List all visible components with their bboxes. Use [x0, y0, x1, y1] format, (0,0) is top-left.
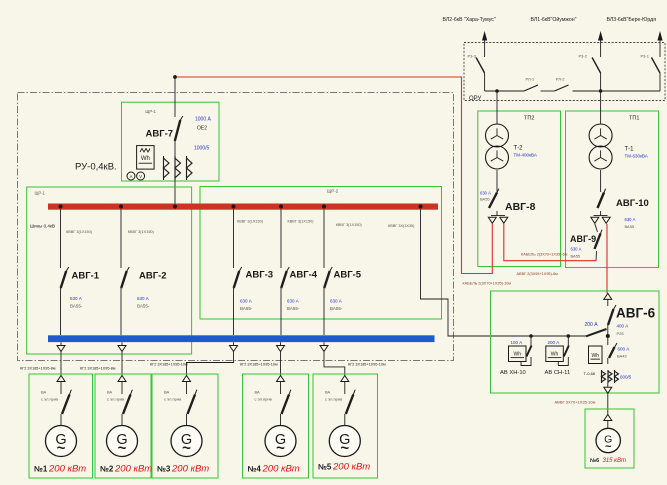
wire ОРУ bus segment 2 — [541, 90, 555, 92]
node generator box №5 — [313, 374, 378, 478]
node arrow ВЛ2 — [482, 31, 487, 41]
svg-text:1000 А: 1000 А — [195, 117, 212, 123]
svg-text:ОРУ: ОРУ — [469, 96, 482, 102]
svg-text:ВА55-: ВА55- — [330, 306, 343, 311]
wire line ВЛ1 lower — [600, 73, 602, 91]
svg-text:АВГ-1: АВГ-1 — [72, 271, 100, 282]
svg-text:АВВГ 3Х70+1Х35-10м: АВВГ 3Х70+1Х35-10м — [555, 400, 596, 405]
svg-text:ВА: ВА — [255, 390, 261, 395]
node connector right АВГ-10 — [602, 217, 610, 223]
wire connector to АВГ-9 — [595, 224, 598, 232]
generator G5 — [329, 426, 360, 458]
svg-text:ВА55: ВА55 — [480, 197, 490, 202]
disconnector on ВЛ3 — [652, 58, 661, 74]
breaker АВГ-2 — [121, 267, 129, 288]
node junction ТП1 tap — [599, 89, 603, 93]
wire АВГ-6 mid — [607, 325, 609, 345]
generator G6 — [596, 428, 620, 453]
node connector below blue bus №2 — [118, 346, 126, 352]
wire №2 upper — [121, 382, 123, 395]
svg-text:ВА: ВА — [107, 390, 113, 395]
svg-text:Р3-3: Р3-3 — [468, 54, 477, 59]
node junction АВ СН-11 tap — [567, 334, 571, 338]
svg-text:ВЛ2-6кВ "Хара-Тумус": ВЛ2-6кВ "Хара-Тумус" — [443, 17, 496, 23]
wire ОРУ to Т-2 — [496, 91, 498, 125]
svg-text:РЛ-1: РЛ-1 — [526, 77, 535, 82]
svg-text:~: ~ — [276, 440, 285, 457]
svg-text:РУ-0,4кВ.: РУ-0,4кВ. — [75, 162, 117, 173]
meter Wh АВГ-6 — [589, 346, 603, 364]
generator G3 — [171, 426, 202, 458]
wire red bus to АВГ-5 — [323, 210, 325, 269]
svg-text:АВ ХН-10: АВ ХН-10 — [500, 370, 526, 376]
svg-text:ЩР-1: ЩР-1 — [35, 191, 46, 196]
wire АВГ-7 upper — [174, 77, 176, 117]
meter Wh АВГ-7 squiggle — [140, 149, 150, 153]
svg-text:ВА55-: ВА55- — [287, 306, 300, 311]
svg-text:КВВГ 3(1Х150): КВВГ 3(1Х150) — [66, 230, 93, 234]
breaker generator №1 — [62, 390, 71, 414]
svg-text:200 кВт: 200 кВт — [48, 464, 86, 475]
svg-text:КГ2 3Х185+1Х95-10м: КГ2 3Х185+1Х95-10м — [348, 363, 386, 367]
wire line ВЛ3 lower — [659, 73, 661, 91]
node connector АВГ-6 output — [604, 387, 612, 393]
node junction АВГ-6 tie — [606, 334, 610, 338]
node connector left АВГ-8 — [488, 217, 496, 223]
node junction red bus АВГ-7 — [173, 204, 177, 208]
wire №3 upper — [186, 382, 188, 395]
generator G2 — [107, 426, 138, 458]
wire №4 upper — [280, 382, 282, 395]
svg-text:АВГ-6: АВГ-6 — [616, 306, 656, 321]
svg-text:с эл.прив: с эл.прив — [164, 397, 181, 402]
wire blue bus stub №1 — [60, 342, 62, 345]
node generator box №3 — [152, 374, 218, 478]
svg-text:КГ2 3Х185+1Х95-10м: КГ2 3Х185+1Х95-10м — [150, 363, 188, 367]
svg-text:ТМ-400кВА: ТМ-400кВА — [514, 153, 537, 158]
wire №3 to G — [186, 414, 188, 426]
svg-text:~: ~ — [340, 440, 349, 457]
node junction blue bus АВГ-3 — [231, 337, 235, 341]
wire №4 to G — [280, 414, 282, 426]
svg-text:~: ~ — [182, 440, 191, 457]
wire to АВ ХН-10 — [530, 336, 532, 346]
svg-text:100 А: 100 А — [511, 340, 523, 345]
wire АВГ-7 lower to bus — [174, 141, 176, 204]
bus blue generator bus — [48, 335, 435, 342]
node junction blue bus АВГ-2 — [119, 337, 123, 341]
node generator box №4 — [243, 374, 309, 478]
svg-text:ВА: ВА — [164, 390, 170, 395]
svg-text:ВА55: ВА55 — [625, 224, 635, 229]
node connector №3 box input — [183, 376, 191, 382]
svg-text:ЩР-1: ЩР-1 — [145, 109, 156, 114]
svg-text:КВВГ 3Х(1Х35): КВВГ 3Х(1Х35) — [388, 224, 415, 228]
svg-text:№5: №5 — [318, 463, 332, 472]
svg-text:630 А: 630 А — [287, 299, 299, 304]
meter voltmeter V — [137, 172, 145, 180]
wire АВГ-2 to blue bus — [120, 288, 122, 335]
svg-text:с эл.прив: с эл.прив — [255, 397, 272, 402]
svg-text:КГ2 3Х185+1Х95-8м: КГ2 3Х185+1Х95-8м — [20, 367, 56, 371]
node junction blue bus АВГ-4 — [279, 337, 283, 341]
breaker generator №2 — [123, 390, 132, 414]
wire to АВ СН-11 — [567, 336, 569, 346]
breaker generator №3 — [188, 390, 197, 414]
node АВГ-7 section enclosure — [122, 102, 220, 181]
wire АВГ-1 to blue bus — [60, 288, 62, 335]
node ОРУ dotted enclosure — [464, 43, 665, 101]
breaker АВГ-7 — [175, 116, 183, 141]
node generator 6 enclosure — [585, 409, 634, 468]
svg-text:№4: №4 — [248, 465, 262, 474]
wire АВ СН-11 hook — [558, 357, 568, 366]
node connector below blue bus №4 — [277, 346, 285, 352]
node connector АВГ-6 input — [604, 293, 612, 299]
svg-text:ВА55-: ВА55- — [70, 304, 83, 309]
node junction red bus АВГ-3 — [231, 204, 235, 208]
wire drop jog №3 — [187, 352, 234, 376]
svg-text:Р3-1: Р3-1 — [641, 54, 650, 59]
wire АВ ХН-10 hook — [521, 357, 531, 366]
svg-text:№3: №3 — [157, 465, 171, 474]
svg-text:400 А: 400 А — [617, 324, 629, 329]
wire blue bus stub №3 — [233, 342, 235, 345]
svg-text:АВГ-4: АВГ-4 — [290, 270, 318, 281]
wire red tie АВГ-7 top to АВГ-8 left connector — [175, 77, 492, 274]
svg-text:РЛ-2: РЛ-2 — [556, 77, 565, 82]
wire АВГ-4 to blue bus — [280, 288, 282, 335]
wire to G6 — [607, 421, 609, 429]
breaker АВ ХН-10 blade — [527, 346, 532, 357]
node connector №5 box input — [341, 376, 349, 382]
breaker АВГ-3 — [234, 267, 242, 288]
breaker АВГ-10 — [598, 189, 606, 208]
node connector №4 box input — [277, 376, 285, 382]
svg-text:630 А: 630 А — [571, 247, 582, 252]
svg-text:Р3-2: Р3-2 — [579, 54, 588, 59]
svg-text:630 А: 630 А — [70, 296, 82, 301]
svg-text:КВВГ 3(1Х150): КВВГ 3(1Х150) — [128, 230, 155, 234]
svg-text:630 А: 630 А — [240, 299, 252, 304]
wire ОРУ bus segment 1 — [485, 90, 524, 92]
svg-text:АВГ-5: АВГ-5 — [334, 270, 362, 281]
wire №1 upper — [60, 382, 62, 395]
svg-text:АВГ-7: АВГ-7 — [146, 129, 174, 140]
node generator box №1 — [29, 374, 93, 478]
svg-text:ТМ-630кВА: ТМ-630кВА — [625, 154, 648, 159]
svg-text:1000/5: 1000/5 — [194, 146, 210, 152]
svg-text:ВА55-: ВА55- — [137, 304, 150, 309]
svg-text:~: ~ — [118, 440, 127, 457]
meter Wh АВ СН-11 — [546, 346, 564, 362]
svg-text:КАБЕЛЬ 2(3Х70+1Х35)-10м: КАБЕЛЬ 2(3Х70+1Х35)-10м — [463, 282, 512, 286]
wire АВГ-6 input — [607, 299, 609, 306]
svg-text:№1: №1 — [34, 465, 48, 474]
svg-text:Т-2: Т-2 — [514, 146, 524, 152]
wire drop №4 — [280, 352, 282, 376]
wire red bus to АВГ-3 — [233, 210, 235, 269]
meter Wh АВГ-7 — [137, 146, 155, 170]
wire line ВЛ2 upper — [484, 40, 486, 57]
node junction ТП2 tap — [495, 89, 499, 93]
wire red bus to АВГ-1 — [60, 210, 62, 269]
CT current transformers АВГ-7 — [164, 156, 193, 180]
node junction blue bus АВГ-5 — [322, 337, 326, 341]
wire blue bus stub №5 — [323, 342, 325, 345]
wire АВГ-5 to blue bus — [323, 288, 325, 335]
bus red 0,4кВ — [48, 204, 438, 210]
node junction blue bus АВГ-1 — [58, 337, 62, 341]
svg-text:КАБЕЛЬ 2(3Х70+1Х35)-6м: КАБЕЛЬ 2(3Х70+1Х35)-6м — [521, 253, 568, 257]
svg-text:~: ~ — [57, 440, 66, 457]
svg-text:Шины 0,4кВ: Шины 0,4кВ — [30, 224, 55, 229]
svg-text:КВВГ 3(1Х150): КВВГ 3(1Х150) — [288, 220, 315, 224]
breaker АВГ-4 — [281, 267, 289, 288]
node connector №2 box input — [118, 376, 126, 382]
node connector generator 6 — [604, 415, 612, 421]
generator G4 — [265, 426, 296, 458]
svg-text:АВ СН-11: АВ СН-11 — [545, 370, 571, 376]
svg-text:ВЛ3-6кВ"Бере-Юрдя: ВЛ3-6кВ"Бере-Юрдя — [607, 17, 657, 23]
svg-text:200 кВт: 200 кВт — [171, 464, 209, 475]
wire drop №1 — [60, 352, 62, 376]
svg-text:с эл.прив: с эл.прив — [325, 397, 342, 402]
wire drop №2 — [121, 352, 123, 376]
svg-text:АВГ-2: АВГ-2 — [139, 271, 167, 282]
svg-text:200 кВт: 200 кВт — [262, 464, 300, 475]
svg-text:315 кВт: 315 кВт — [603, 458, 627, 464]
svg-text:АВГ-8: АВГ-8 — [505, 201, 536, 213]
svg-text:АВГ-3: АВГ-3 — [246, 270, 274, 281]
svg-text:Wh: Wh — [592, 353, 600, 359]
node junction red bus АВГ-1 — [58, 204, 62, 208]
svg-text:600/5: 600/5 — [620, 375, 632, 380]
breaker generator №4 — [282, 390, 291, 414]
svg-text:Wh: Wh — [551, 352, 559, 358]
svg-text:КГ2 3Х185+1Х95-10м: КГ2 3Х185+1Х95-10м — [240, 363, 278, 367]
node АВГ-6 enclosure — [491, 291, 660, 393]
wire №5 to G — [344, 414, 346, 426]
breaker АВГ-1 — [61, 267, 69, 288]
node junction АВ ХН-10 tap — [529, 334, 533, 338]
disconnector РЛ-1 blade — [524, 85, 538, 91]
meter ammeter А — [127, 172, 135, 180]
svg-text:ОЕ2: ОЕ2 — [197, 126, 207, 132]
svg-text:630 А: 630 А — [480, 191, 491, 196]
svg-text:Т-0,66: Т-0,66 — [584, 371, 596, 376]
transformer Т-2 — [486, 124, 509, 169]
wire №5 upper — [344, 382, 346, 395]
node ЩР-2 enclosure — [200, 187, 442, 320]
node junction at АВГ-7 top — [173, 75, 177, 79]
wire АВГ-3 to blue bus — [233, 288, 235, 335]
node arrow ВЛ1 — [598, 31, 603, 41]
node connector below blue bus №3 — [230, 346, 238, 352]
wire line ВЛ1 upper — [600, 40, 602, 57]
svg-text:с эл.прив: с эл.прив — [41, 397, 58, 402]
svg-text:ТП1: ТП1 — [629, 116, 639, 122]
disconnector РЛ-2 blade — [555, 85, 569, 91]
wire CT to output connector — [607, 383, 609, 388]
wire line ВЛ2 lower — [484, 73, 486, 91]
wire tie red bus to АВГ-6 board — [421, 210, 587, 337]
wire АВГ-9 to tie point — [595, 251, 598, 261]
svg-text:200 кВт: 200 кВт — [332, 462, 370, 473]
breaker АВ СН-11 blade — [564, 346, 569, 357]
svg-text:КВВГ 3(1Х150): КВВГ 3(1Х150) — [237, 220, 264, 224]
breaker АВГ-5 — [324, 267, 332, 288]
node connector below blue bus №5 — [320, 346, 328, 352]
breaker АВГ-6 lower — [609, 343, 617, 358]
svg-text:КВВГ 3(1Х150): КВВГ 3(1Х150) — [336, 223, 363, 227]
node junction red bus АВГ-2 — [119, 204, 123, 208]
disconnector on ВЛ2 — [476, 58, 485, 74]
wire №2 to G — [121, 414, 123, 426]
wire ОРУ to Т-1 — [600, 91, 602, 125]
svg-text:ВА: ВА — [41, 390, 47, 395]
svg-text:200 кВт: 200 кВт — [114, 464, 152, 475]
wire red АВГ-8 right connector to АВГ-9 tie — [504, 224, 596, 261]
svg-text:ВА: ВА — [325, 390, 331, 395]
wire to CT — [607, 358, 609, 364]
transformer Т-1 — [589, 124, 612, 169]
svg-text:Р25: Р25 — [617, 331, 625, 336]
node connector pair АВГ-8 — [491, 215, 505, 217]
wire drop jog №5 — [324, 352, 345, 376]
svg-text:200 А: 200 А — [585, 322, 599, 328]
svg-text:№2: №2 — [100, 465, 114, 474]
node generator box №2 — [95, 374, 151, 478]
svg-text:Wh: Wh — [141, 156, 150, 162]
svg-text:600 А: 600 А — [618, 347, 630, 352]
svg-text:630 А: 630 А — [330, 299, 342, 304]
svg-text:Т-1: Т-1 — [625, 147, 635, 153]
svg-text:ВА55-: ВА55- — [240, 306, 253, 311]
wire АВГ-6 to generator 6 — [607, 394, 609, 415]
svg-text:V: V — [139, 174, 142, 179]
wire red АВГ-10 right connector down to АВГ-6 — [606, 224, 608, 293]
disconnector on ВЛ1 — [592, 58, 601, 74]
wire ОРУ bus segment 3 — [573, 90, 661, 92]
svg-text:ЩР-2: ЩР-2 — [327, 189, 339, 194]
svg-text:АВГ-9: АВГ-9 — [570, 234, 596, 244]
svg-text:~: ~ — [605, 441, 612, 453]
svg-text:Wh: Wh — [514, 352, 522, 358]
node ТП1 enclosure — [566, 111, 659, 268]
node connector below blue bus №1 — [57, 346, 65, 352]
generator G1 — [46, 426, 77, 458]
svg-text:630 А: 630 А — [625, 217, 636, 222]
wire Т-1 to АВГ-10 — [600, 170, 602, 192]
wire АВГ-8 to connectors — [496, 211, 498, 216]
switch blade section tie — [586, 329, 607, 336]
CT current transformers АВГ-6 — [602, 370, 619, 383]
svg-text:А: А — [130, 174, 133, 179]
breaker АВГ-6 — [608, 305, 616, 325]
node connector right АВГ-8 — [500, 217, 508, 223]
node connector left АВГ-10 — [591, 217, 599, 223]
wire blue bus stub №2 — [121, 342, 123, 345]
breaker АВГ-9 — [595, 230, 602, 249]
svg-text:КГ2 3Х185+1Х95-8м: КГ2 3Х185+1Х95-8м — [80, 367, 116, 371]
wire Т-2 to АВГ-8 — [496, 170, 498, 192]
svg-text:ВА55: ВА55 — [571, 254, 581, 259]
node connector №1 box input — [57, 376, 65, 382]
svg-text:№6: №6 — [590, 458, 599, 464]
breaker АВГ-8 — [489, 189, 499, 208]
node connector pair АВГ-10 — [594, 215, 608, 217]
wire blue bus stub №4 — [280, 342, 282, 345]
node junction red bus АВГ-4 — [279, 204, 283, 208]
node junction red bus АВГ-5 — [322, 204, 326, 208]
svg-text:200 А: 200 А — [548, 340, 560, 345]
node ТП2 enclosure — [478, 111, 561, 267]
node arrow ВЛ3 — [657, 31, 662, 41]
meter Wh АВ ХН-10 — [509, 346, 527, 362]
wire red bus to АВГ-4 — [280, 210, 282, 269]
node junction red bus tie to АВГ-6 — [418, 204, 422, 208]
svg-text:АВГ-10: АВГ-10 — [616, 198, 649, 209]
breaker generator №5 — [346, 390, 355, 414]
wire №1 to G — [60, 414, 62, 426]
svg-text:ВА43: ВА43 — [617, 354, 627, 359]
node ЩР-1 enclosure — [27, 187, 192, 354]
wire АВГ-10 to connectors — [600, 211, 602, 216]
svg-text:630 А: 630 А — [137, 296, 149, 301]
svg-text:ВЛ1-6кВ"Ойумжон": ВЛ1-6кВ"Ойумжон" — [531, 16, 577, 23]
node РУ-0,4кВ dashed enclosure — [18, 93, 454, 361]
wire red bus to АВГ-2 — [120, 210, 122, 269]
svg-text:ТП2: ТП2 — [524, 116, 534, 122]
wire line ВЛ3 upper — [659, 40, 661, 57]
svg-text:с эл.прив: с эл.прив — [107, 397, 124, 402]
svg-text:АВВГ 2(3Х95+1Х95)-6м: АВВГ 2(3Х95+1Х95)-6м — [517, 272, 559, 276]
